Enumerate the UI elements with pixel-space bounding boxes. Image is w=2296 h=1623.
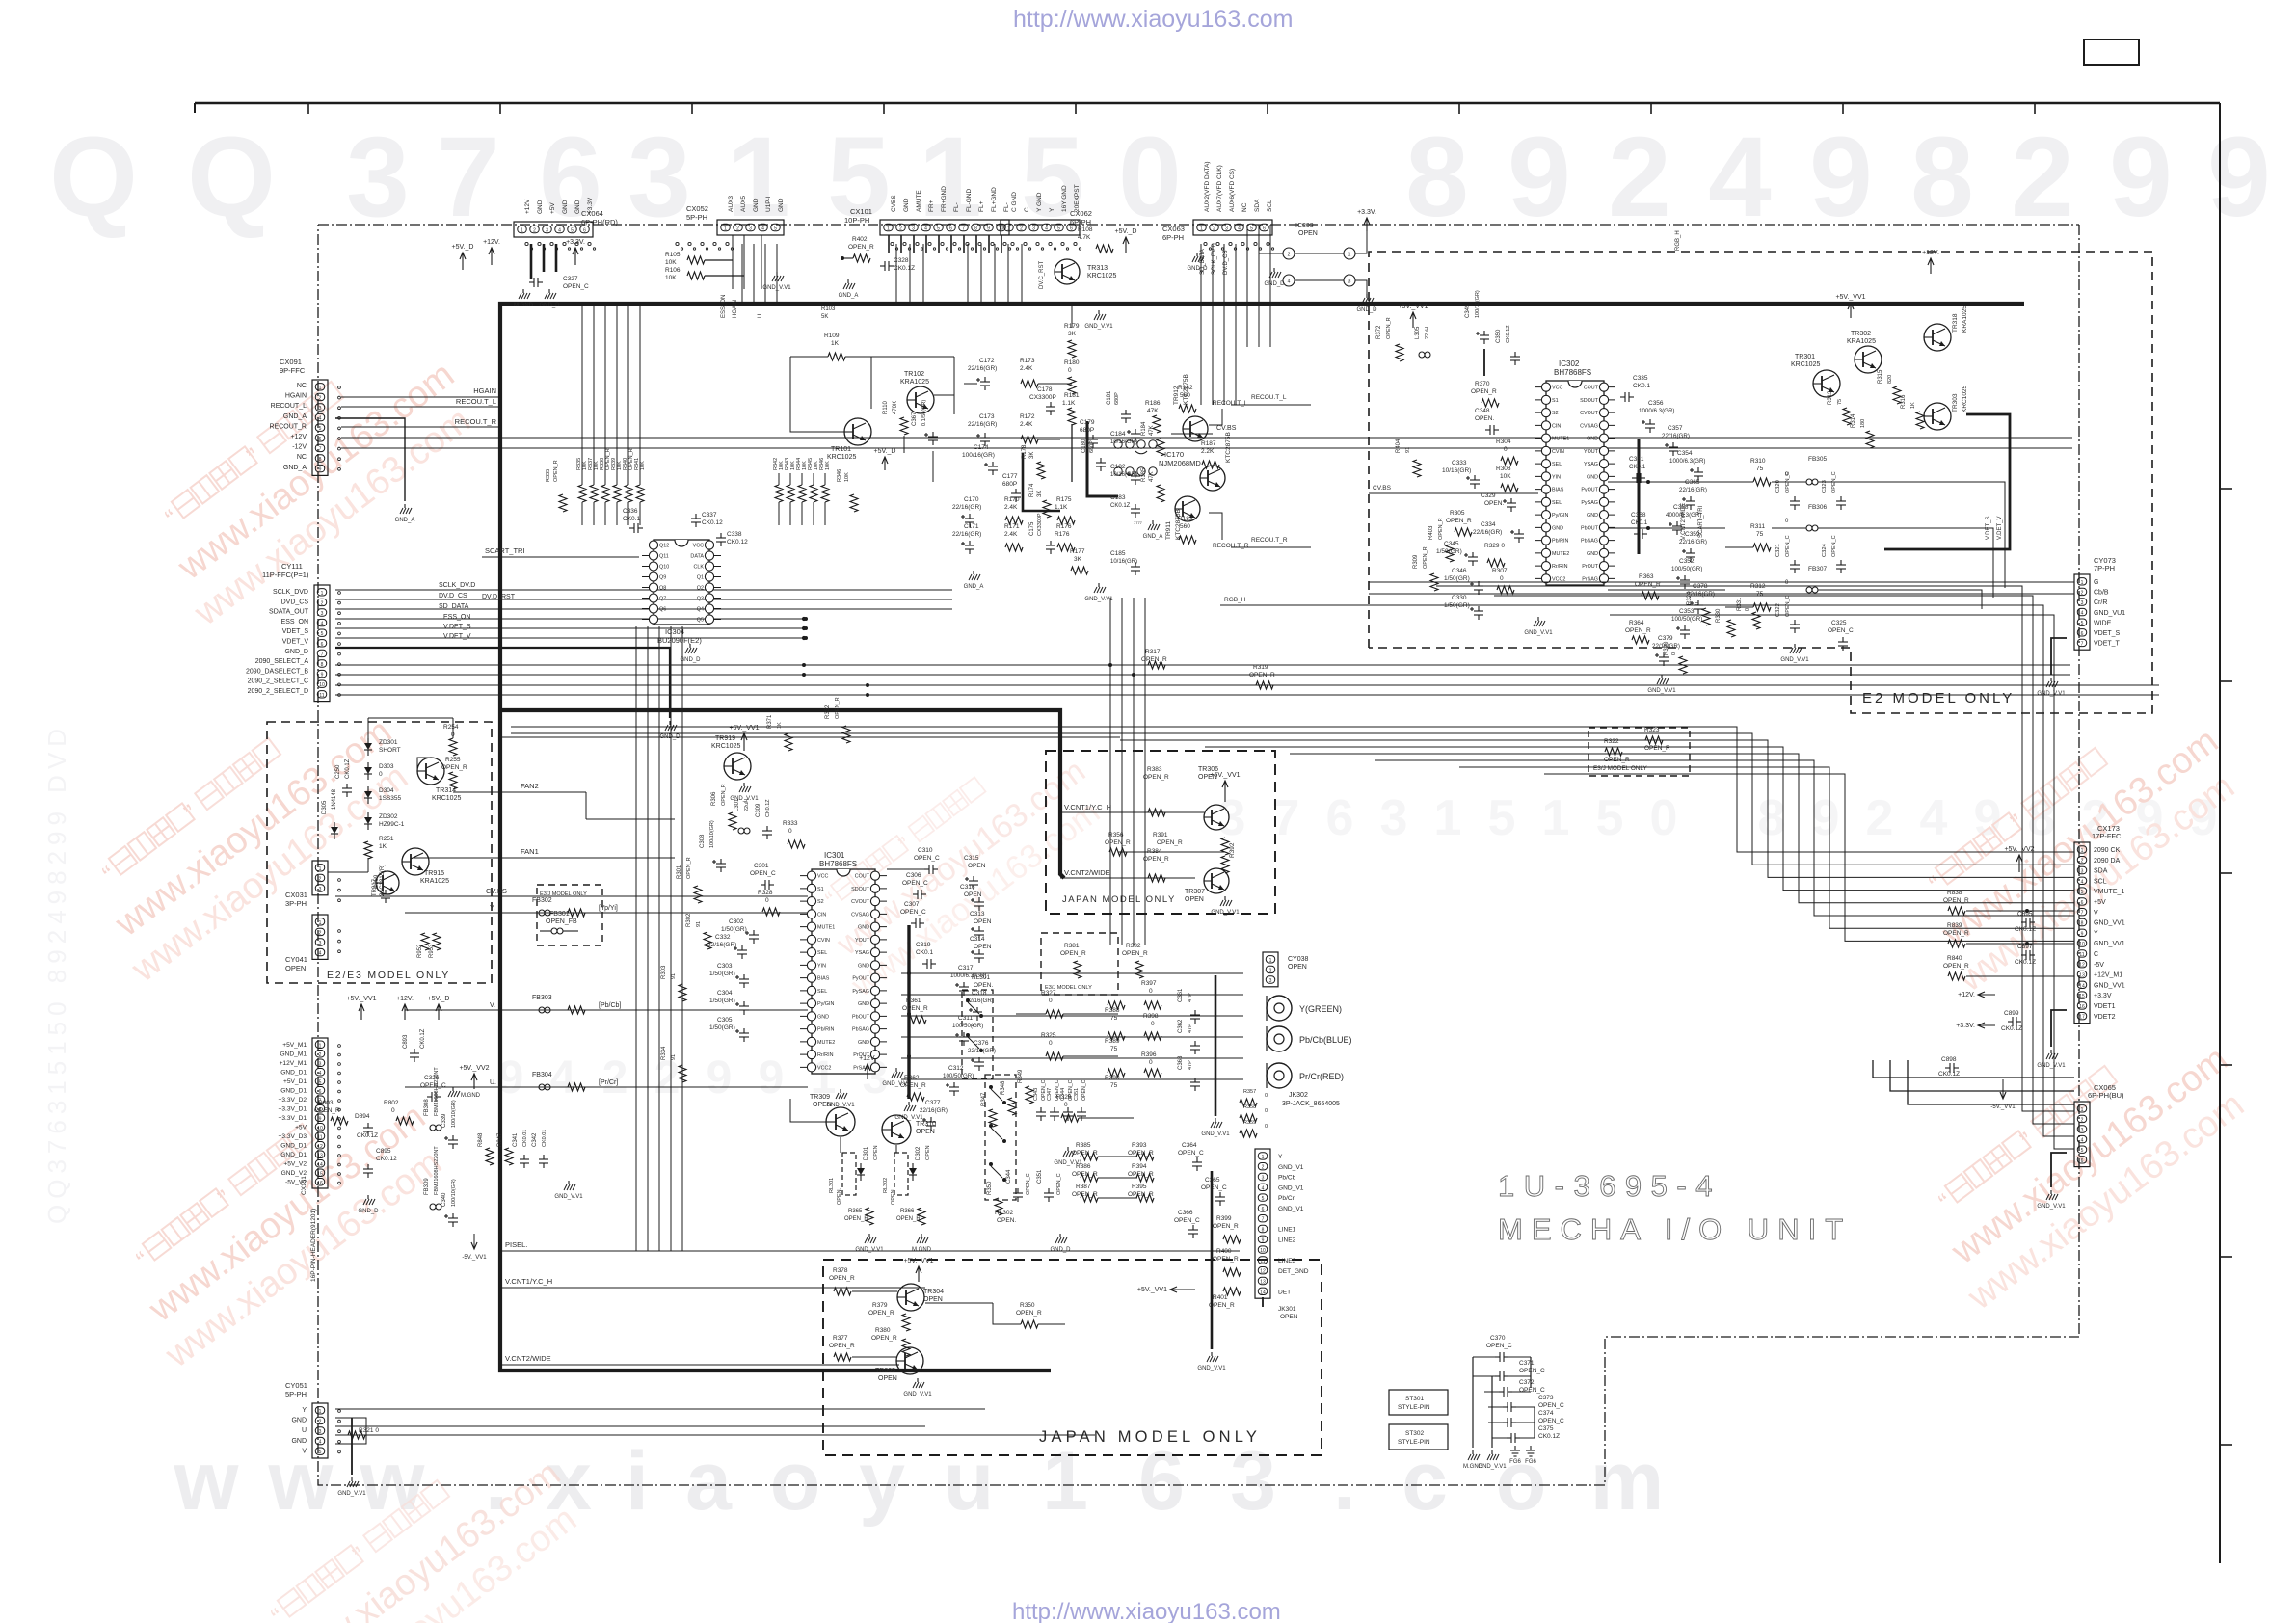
C893 CK0.1Z	[414, 1049, 415, 1053]
svg-text:FB307: FB307	[1808, 566, 1828, 572]
svg-text:C373: C373	[1538, 1395, 1554, 1401]
C895 CK0.1Z	[2021, 921, 2026, 923]
svg-text:C179: C179	[1080, 419, 1095, 426]
svg-text:9: 9	[2207, 114, 2271, 241]
svg-text:SD_DATA: SD_DATA	[439, 603, 469, 610]
svg-text:16Y GND: 16Y GND	[1061, 185, 1068, 212]
svg-text:GND_V.V1: GND_V.V1	[2037, 1063, 2066, 1069]
svg-text:RECOU.T_L: RECOU.T_L	[1251, 394, 1287, 401]
svg-text:SCLK_DV.D: SCLK_DV.D	[439, 582, 475, 589]
IC170 cluster wires	[953, 357, 955, 414]
svg-text:2: 2	[1288, 253, 1291, 258]
svg-text:R847: R847	[497, 1132, 503, 1147]
svg-text:10/16(GR): 10/16(GR)	[1442, 467, 1471, 474]
svg-text:R305: R305	[1450, 510, 1465, 517]
svg-text:3: 3	[1348, 279, 1351, 285]
svg-text:OPEN.: OPEN.	[1475, 415, 1494, 422]
svg-text:GND_V.V1: GND_V.V1	[1524, 630, 1553, 636]
svg-text:R380: R380	[875, 1327, 891, 1334]
svg-text:NC: NC	[1241, 202, 1248, 212]
svg-text:22/16(GR): 22/16(GR)	[1679, 487, 1707, 493]
svg-text:R350: R350	[1020, 1302, 1035, 1309]
svg-text:R187: R187	[1201, 440, 1216, 447]
svg-text:OPEN_R: OPEN_R	[1438, 518, 1444, 540]
svg-text:+5V: +5V	[2094, 899, 2106, 906]
svg-text:C335: C335	[1633, 375, 1648, 382]
svg-text:C309: C309	[756, 803, 761, 817]
svg-text:75: 75	[1837, 399, 1843, 405]
arrow -5V_VV1	[473, 1234, 475, 1249]
svg-text:9: 9	[707, 1052, 733, 1104]
svg-text:560: 560	[1180, 523, 1190, 530]
wire bundle CY111 mid (ESS_ON, VDET_S, VDET_V)	[335, 618, 806, 620]
svg-text:VMUTE_1: VMUTE_1	[2094, 889, 2124, 895]
svg-text:9: 9	[1262, 1237, 1265, 1243]
svg-text:11: 11	[2079, 952, 2084, 958]
svg-text:Y: Y	[302, 1407, 307, 1414]
svg-text:GND_D: GND_D	[1356, 307, 1377, 313]
svg-text:1: 1	[2081, 848, 2084, 854]
svg-text:9: 9	[759, 1052, 785, 1104]
svg-text:680P: 680P	[1089, 440, 1095, 453]
transistor TR318 KRA1025	[1924, 324, 1951, 351]
svg-text:RL302: RL302	[995, 1210, 1014, 1216]
svg-text:YSAG: YSAG	[1584, 462, 1598, 467]
connector JK301 OPEN	[1255, 1149, 1270, 1298]
svg-text:Q12: Q12	[659, 544, 669, 549]
svg-text:OPEN_R: OPEN_R	[844, 1216, 868, 1222]
svg-text:1: 1	[1262, 1155, 1265, 1160]
svg-text:7: 7	[2081, 911, 2084, 917]
svg-text:C184: C184	[1110, 431, 1126, 438]
svg-text:SDOUT: SDOUT	[851, 887, 870, 892]
svg-text:16: 16	[317, 1181, 323, 1186]
wires SDA SCL down	[1246, 225, 1248, 347]
svg-text:Pr/Cr(RED): Pr/Cr(RED)	[1299, 1072, 1344, 1081]
svg-text:ESS_ON: ESS_ON	[721, 295, 727, 318]
svg-text:OPEN_C: OPEN_C	[750, 870, 776, 877]
svg-text:2: 2	[1213, 226, 1215, 232]
E3/J MODEL ONLY box 2 (R322/R323)	[1589, 728, 1690, 776]
svg-text:V.DET_S: V.DET_S	[443, 624, 471, 630]
svg-text:100/50(GR): 100/50(GR)	[1671, 616, 1702, 623]
svg-text:10K: 10K	[665, 275, 677, 281]
svg-text:4: 4	[972, 1024, 974, 1029]
svg-text:GND: GND	[753, 198, 760, 212]
svg-text:75: 75	[1756, 466, 1764, 472]
svg-text:FL-GND: FL-GND	[966, 189, 973, 213]
svg-text:C339: C339	[441, 1113, 447, 1128]
svg-text:V.DET_V: V.DET_V	[443, 633, 471, 640]
svg-text:100/10(GR): 100/10(GR)	[709, 820, 715, 848]
svg-text:C351: C351	[1037, 1169, 1043, 1184]
svg-text:1: 1	[1542, 790, 1570, 846]
svg-text:C173: C173	[979, 413, 995, 420]
svg-text:6P-PH: 6P-PH	[1070, 218, 1091, 226]
svg-text:OPEN_R: OPEN_R	[868, 1310, 894, 1317]
svg-text:1K: 1K	[831, 340, 840, 347]
svg-text:AUX3: AUX3	[728, 196, 734, 212]
svg-text:22/16(GR): 22/16(GR)	[920, 1107, 948, 1114]
svg-text:R176: R176	[1056, 523, 1072, 530]
svg-text:D301: D301	[864, 1146, 869, 1160]
connector CX031 3P-PH	[312, 861, 328, 895]
svg-text:OPEN: OPEN	[974, 918, 992, 925]
svg-text:47K: 47K	[1147, 408, 1159, 414]
svg-text:C371: C371	[1519, 1360, 1535, 1367]
svg-text:YIN: YIN	[1552, 474, 1561, 480]
svg-text:VDET_S: VDET_S	[2094, 630, 2121, 637]
svg-text:R319: R319	[1253, 664, 1268, 671]
svg-text:14: 14	[1260, 1290, 1266, 1295]
svg-text:R331: R331	[1737, 597, 1743, 611]
svg-text:4: 4	[2081, 1138, 2084, 1144]
IC302 gnd	[1537, 617, 1539, 621]
svg-text:VDET_T: VDET_T	[2094, 641, 2121, 648]
svg-text:R254: R254	[443, 724, 459, 731]
C370 block rails	[1472, 1357, 1474, 1448]
svg-text:R315: R315	[1878, 369, 1883, 384]
svg-text:100/50(GR): 100/50(GR)	[952, 1023, 983, 1029]
svg-text:TR102: TR102	[904, 371, 924, 378]
svg-text:FB305: FB305	[1808, 456, 1828, 463]
svg-text:R171: R171	[1004, 523, 1020, 530]
svg-text:0: 0	[1745, 608, 1750, 611]
svg-text:PyOUT: PyOUT	[1581, 488, 1598, 493]
svg-text:6: 6	[1262, 1207, 1265, 1212]
svg-text:1: 1	[724, 226, 727, 232]
connector CX091 9P-FFC	[312, 380, 328, 475]
arrow +5V_VV1	[360, 1004, 362, 1020]
svg-text:10: 10	[319, 682, 325, 688]
svg-text:R302: R302	[686, 913, 692, 927]
svg-text:R363: R363	[1639, 573, 1654, 580]
svg-text:1/50(GR): 1/50(GR)	[709, 1024, 735, 1031]
svg-text:9: 9	[1812, 790, 1840, 846]
arrow +5V_D	[438, 1004, 440, 1020]
JAPAN MODEL ONLY upper dashed box	[1046, 751, 1275, 914]
svg-text:GND_D: GND_D	[539, 303, 560, 308]
svg-text:6: 6	[1138, 1435, 1185, 1528]
svg-text:C379: C379	[1658, 635, 1673, 642]
connector CX101 10P-PH	[880, 220, 1009, 235]
svg-text:CX031: CX031	[285, 891, 307, 899]
wire CY111 gnd stem	[335, 648, 670, 718]
svg-text:TR313: TR313	[1087, 265, 1108, 272]
svg-text:+12V.: +12V.	[859, 1055, 876, 1062]
svg-text:R321 0: R321 0	[359, 1427, 379, 1434]
svg-text:R324: R324	[1687, 591, 1693, 605]
wires TR101 TR102	[790, 414, 844, 432]
svg-text:GND: GND	[1587, 437, 1598, 442]
svg-text:10: 10	[317, 1126, 323, 1131]
svg-text:CLK: CLK	[694, 565, 705, 571]
svg-text:R350: R350	[987, 1181, 993, 1195]
svg-text:10K: 10K	[640, 461, 646, 470]
svg-text:SCART_TRI: SCART_TRI	[485, 546, 525, 555]
svg-text:R313: R313	[1828, 390, 1833, 405]
svg-text:GND_VU1: GND_VU1	[2094, 610, 2125, 617]
svg-text:C177: C177	[1002, 473, 1018, 480]
svg-text:3: 3	[1269, 978, 1272, 984]
svg-text:+12V.: +12V.	[396, 996, 414, 1002]
svg-text:RL302: RL302	[883, 1178, 889, 1193]
svg-text:OPEN.: OPEN.	[1484, 500, 1504, 507]
svg-text:C349: C349	[1465, 304, 1471, 318]
svg-text:C302: C302	[729, 918, 744, 925]
svg-text:C354: C354	[1677, 450, 1693, 457]
svg-text:8: 8	[321, 662, 324, 668]
svg-text:6: 6	[1263, 226, 1266, 232]
svg-text:2: 2	[602, 1052, 628, 1104]
svg-text:C327: C327	[563, 276, 578, 282]
svg-text:R371: R371	[767, 714, 773, 729]
wire RECOUT-R	[341, 426, 500, 428]
svg-text:RECOU.T_L: RECOU.T_L	[1213, 400, 1248, 407]
svg-text:DV.D_RST: DV.D_RST	[482, 594, 516, 600]
svg-text:SCLK_DVD: SCLK_DVD	[273, 589, 308, 596]
svg-text:SCL: SCL	[2094, 878, 2107, 885]
svg-text:5: 5	[937, 226, 940, 232]
svg-text:0: 0	[1151, 1021, 1155, 1027]
svg-text:9P-FFC: 9P-FFC	[280, 366, 306, 375]
svg-text:8: 8	[2081, 921, 2084, 927]
svg-text:C352: C352	[1679, 558, 1695, 565]
svg-text:0: 0	[1265, 1124, 1268, 1130]
svg-text:Y GND: Y GND	[1036, 192, 1043, 212]
svg-text:75: 75	[1756, 531, 1764, 538]
svg-text:10/16(GR): 10/16(GR)	[1110, 472, 1137, 478]
svg-text:C378: C378	[1693, 583, 1708, 590]
svg-text:[Yp/Yi]: [Yp/Yi]	[599, 905, 618, 912]
outer boundary dash-dot	[318, 224, 2079, 226]
svg-text:GND: GND	[1552, 525, 1563, 531]
svg-text:VCC2: VCC2	[817, 1065, 831, 1071]
svg-text:R180: R180	[1064, 359, 1080, 366]
svg-text:IC303: IC303	[1295, 223, 1314, 229]
svg-text:2: 2	[319, 395, 322, 401]
svg-text:OPEN_C: OPEN_C	[900, 909, 926, 916]
svg-text:9: 9	[319, 467, 322, 473]
svg-text:TR915: TR915	[424, 870, 444, 877]
svg-text:2: 2	[319, 1052, 322, 1058]
svg-text:OPEN_R: OPEN_R	[1943, 963, 1969, 970]
svg-text:GND_V.V1: GND_V.V1	[1647, 688, 1676, 694]
svg-text:V.CNT2/WIDE: V.CNT2/WIDE	[1681, 503, 1687, 540]
wire CY051 V	[335, 1434, 1095, 1436]
transistor TR912 KTC2875B	[1183, 416, 1208, 441]
svg-text:4: 4	[924, 226, 927, 232]
svg-text:CK0.1Z: CK0.1Z	[894, 265, 915, 272]
svg-text:SCART_TRI: SCART_TRI	[1698, 505, 1704, 538]
svg-text:LINE2: LINE2	[1278, 1237, 1296, 1243]
svg-text:1/50(GR): 1/50(GR)	[721, 926, 747, 933]
svg-text:R347: R347	[981, 1092, 987, 1106]
svg-text:22uH: 22uH	[1425, 327, 1430, 339]
svg-text:2: 2	[321, 600, 324, 606]
watermark pink rotated mid	[796, 722, 1117, 1004]
svg-text:R312: R312	[1750, 583, 1766, 590]
svg-text:CK0.12: CK0.12	[702, 519, 723, 526]
svg-text:Pb/Cb(BLUE): Pb/Cb(BLUE)	[1299, 1035, 1352, 1045]
svg-text:9: 9	[1508, 114, 1571, 241]
svg-text:1: 1	[919, 114, 982, 241]
svg-text:75: 75	[1110, 1015, 1118, 1022]
svg-text:2: 2	[2081, 1117, 2084, 1123]
svg-text:2: 2	[319, 930, 322, 936]
svg-text:22/16(GR): 22/16(GR)	[707, 942, 736, 948]
svg-text:GND_V1: GND_V1	[1278, 1184, 1304, 1191]
svg-text:YSAG: YSAG	[855, 950, 869, 956]
svg-text:R311: R311	[1750, 523, 1765, 530]
svg-text:GND: GND	[858, 1001, 869, 1007]
svg-text:Q10: Q10	[659, 565, 669, 571]
svg-text:11P-FFC(P=1): 11P-FFC(P=1)	[262, 571, 309, 579]
connector pin stubs	[525, 242, 528, 245]
svg-text:C350: C350	[1496, 329, 1502, 343]
svg-text:1/50(GR): 1/50(GR)	[709, 971, 735, 977]
svg-text:1/50(GR): 1/50(GR)	[1444, 575, 1470, 582]
svg-text:R307: R307	[1492, 568, 1508, 574]
svg-text:1K: 1K	[777, 722, 783, 729]
C269 47/25	[385, 890, 387, 894]
svg-text:OPEN_R: OPEN_R	[1105, 839, 1131, 846]
svg-text:CY051: CY051	[285, 1381, 307, 1390]
svg-text:2: 2	[2081, 590, 2084, 596]
svg-text:FL-: FL-	[1003, 202, 1010, 212]
svg-text:GND_A: GND_A	[283, 413, 307, 420]
svg-text:R103: R103	[821, 306, 836, 312]
svg-text:3K: 3K	[1037, 491, 1043, 497]
relay RL302b small	[894, 1153, 908, 1195]
svg-text:OPEN_C: OPEN_C	[1174, 1217, 1200, 1224]
svg-text:AUX5: AUX5	[740, 196, 747, 212]
svg-text:GND_V.V1: GND_V.V1	[1211, 910, 1240, 916]
svg-text:w: w	[174, 1435, 240, 1528]
svg-text:12: 12	[1260, 1269, 1266, 1275]
svg-text:+12V_M1: +12V_M1	[2094, 972, 2122, 979]
transistor TR912b KTC2875B	[1200, 466, 1225, 491]
svg-text:Y: Y	[2094, 930, 2098, 937]
svg-text:R333: R333	[783, 820, 798, 827]
svg-text:4: 4	[2081, 879, 2084, 885]
svg-text:RECOU.T_R: RECOU.T_R	[455, 417, 497, 426]
watermark pink rotated far-bottom-left	[238, 1419, 596, 1623]
svg-text:5: 5	[1057, 226, 1060, 232]
svg-text:GND_V.V1: GND_V.V1	[1197, 1366, 1226, 1371]
svg-text:C269: C269	[374, 874, 380, 889]
svg-text:5: 5	[319, 1450, 322, 1455]
svg-text:OPEN_R: OPEN_R	[1446, 518, 1472, 524]
svg-text:C342: C342	[532, 1132, 538, 1147]
svg-text:GND: GND	[903, 198, 910, 212]
svg-text:C313: C313	[970, 911, 985, 918]
svg-text:+5V._VV2: +5V._VV2	[459, 1065, 489, 1072]
svg-text:OPEN_R: OPEN_R	[553, 460, 559, 482]
svg-text:C178: C178	[1037, 386, 1053, 393]
svg-text:FB308: FB308	[424, 1099, 430, 1116]
svg-text:MECHA I/O UNIT: MECHA I/O UNIT	[1498, 1212, 1852, 1246]
svg-text:10P-PH: 10P-PH	[844, 216, 869, 225]
svg-text:C337: C337	[702, 512, 717, 519]
svg-text:C344: C344	[1060, 1088, 1066, 1101]
svg-text:C366: C366	[1178, 1210, 1193, 1216]
ST301 STYLE-PIN box	[1389, 1390, 1448, 1415]
svg-text:HGAIN: HGAIN	[473, 386, 496, 395]
svg-text:6: 6	[2081, 1158, 2084, 1164]
svg-text:5: 5	[972, 1058, 974, 1064]
svg-text:ESS_ON: ESS_ON	[281, 619, 308, 625]
svg-text:Q1: Q1	[697, 575, 704, 581]
svg-text:C308: C308	[700, 834, 706, 848]
svg-text:OPEN_R: OPEN_R	[721, 784, 727, 806]
svg-text:CK0.1: CK0.1	[1633, 383, 1650, 389]
svg-text:OPEN: OPEN	[923, 1296, 943, 1303]
svg-text:C328: C328	[894, 257, 909, 264]
svg-text:GND: GND	[858, 925, 869, 931]
svg-text:FG6: FG6	[1525, 1459, 1536, 1465]
svg-text:S1: S1	[817, 887, 824, 892]
svg-text:0: 0	[1265, 1108, 1268, 1114]
svg-text:CIN: CIN	[1552, 423, 1561, 429]
svg-text:Q3: Q3	[697, 597, 704, 602]
svg-text:C357: C357	[1668, 425, 1683, 432]
svg-text:R175: R175	[1056, 496, 1072, 503]
svg-text:Y.: Y.	[490, 905, 495, 912]
zener ZD302 HZ99C-1	[364, 817, 372, 824]
svg-text:2: 2	[2081, 859, 2084, 865]
svg-text:20EXPST: 20EXPST	[1074, 184, 1081, 212]
IC304 top parts C337	[695, 514, 697, 519]
svg-text:C180: C180	[1081, 439, 1087, 453]
svg-text:+12V.: +12V.	[1922, 250, 1939, 256]
svg-text:R393: R393	[1132, 1142, 1147, 1149]
svg-text:U: U	[302, 1427, 307, 1434]
svg-text:MUTE1: MUTE1	[1552, 437, 1569, 442]
svg-text:6P-PH: 6P-PH	[1162, 233, 1184, 242]
svg-text:1: 1	[1007, 226, 1010, 232]
svg-text:OPEN_C: OPEN_C	[1056, 1173, 1062, 1195]
svg-text:CX091: CX091	[280, 358, 302, 366]
svg-text:http://www.xiaoyu163.com: http://www.xiaoyu163.com	[1013, 6, 1293, 33]
svg-text:3: 3	[1262, 1176, 1265, 1182]
svg-text:0: 0	[1068, 367, 1072, 374]
svg-text:GND_D1: GND_D1	[280, 1143, 307, 1150]
svg-text:OPEN: OPEN	[285, 964, 306, 972]
transistor TR302 KRA1025	[1855, 346, 1882, 373]
svg-text:Q5: Q5	[697, 618, 704, 624]
svg-text:D894: D894	[355, 1113, 370, 1120]
svg-text:COUT: COUT	[1584, 386, 1599, 391]
gnd field	[1067, 1147, 1069, 1151]
diode D305 1N4148	[331, 827, 338, 834]
svg-text:+12V: +12V	[290, 434, 307, 440]
svg-text:2: 2	[1269, 968, 1272, 973]
svg-text:GND_V1: GND_V1	[1278, 1206, 1304, 1212]
svg-text:5: 5	[1250, 226, 1253, 232]
svg-text:OPEN_R: OPEN_R	[871, 1335, 897, 1342]
svg-text:100/50(GR): 100/50(GR)	[943, 1073, 974, 1079]
svg-text:o: o	[770, 1435, 821, 1528]
svg-text:OPEN_C: OPEN_C	[1538, 1418, 1564, 1424]
watermark pink rotated left-bottom	[103, 1062, 461, 1376]
svg-text:HZ99C-1: HZ99C-1	[379, 821, 405, 828]
svg-text:ST301: ST301	[1405, 1396, 1425, 1402]
svg-text:CK0.1Z: CK0.1Z	[345, 758, 351, 779]
svg-text:PbOUT: PbOUT	[852, 1014, 870, 1020]
svg-text:2090 DA: 2090 DA	[2094, 858, 2121, 865]
wire RGB_H	[1220, 604, 1683, 606]
